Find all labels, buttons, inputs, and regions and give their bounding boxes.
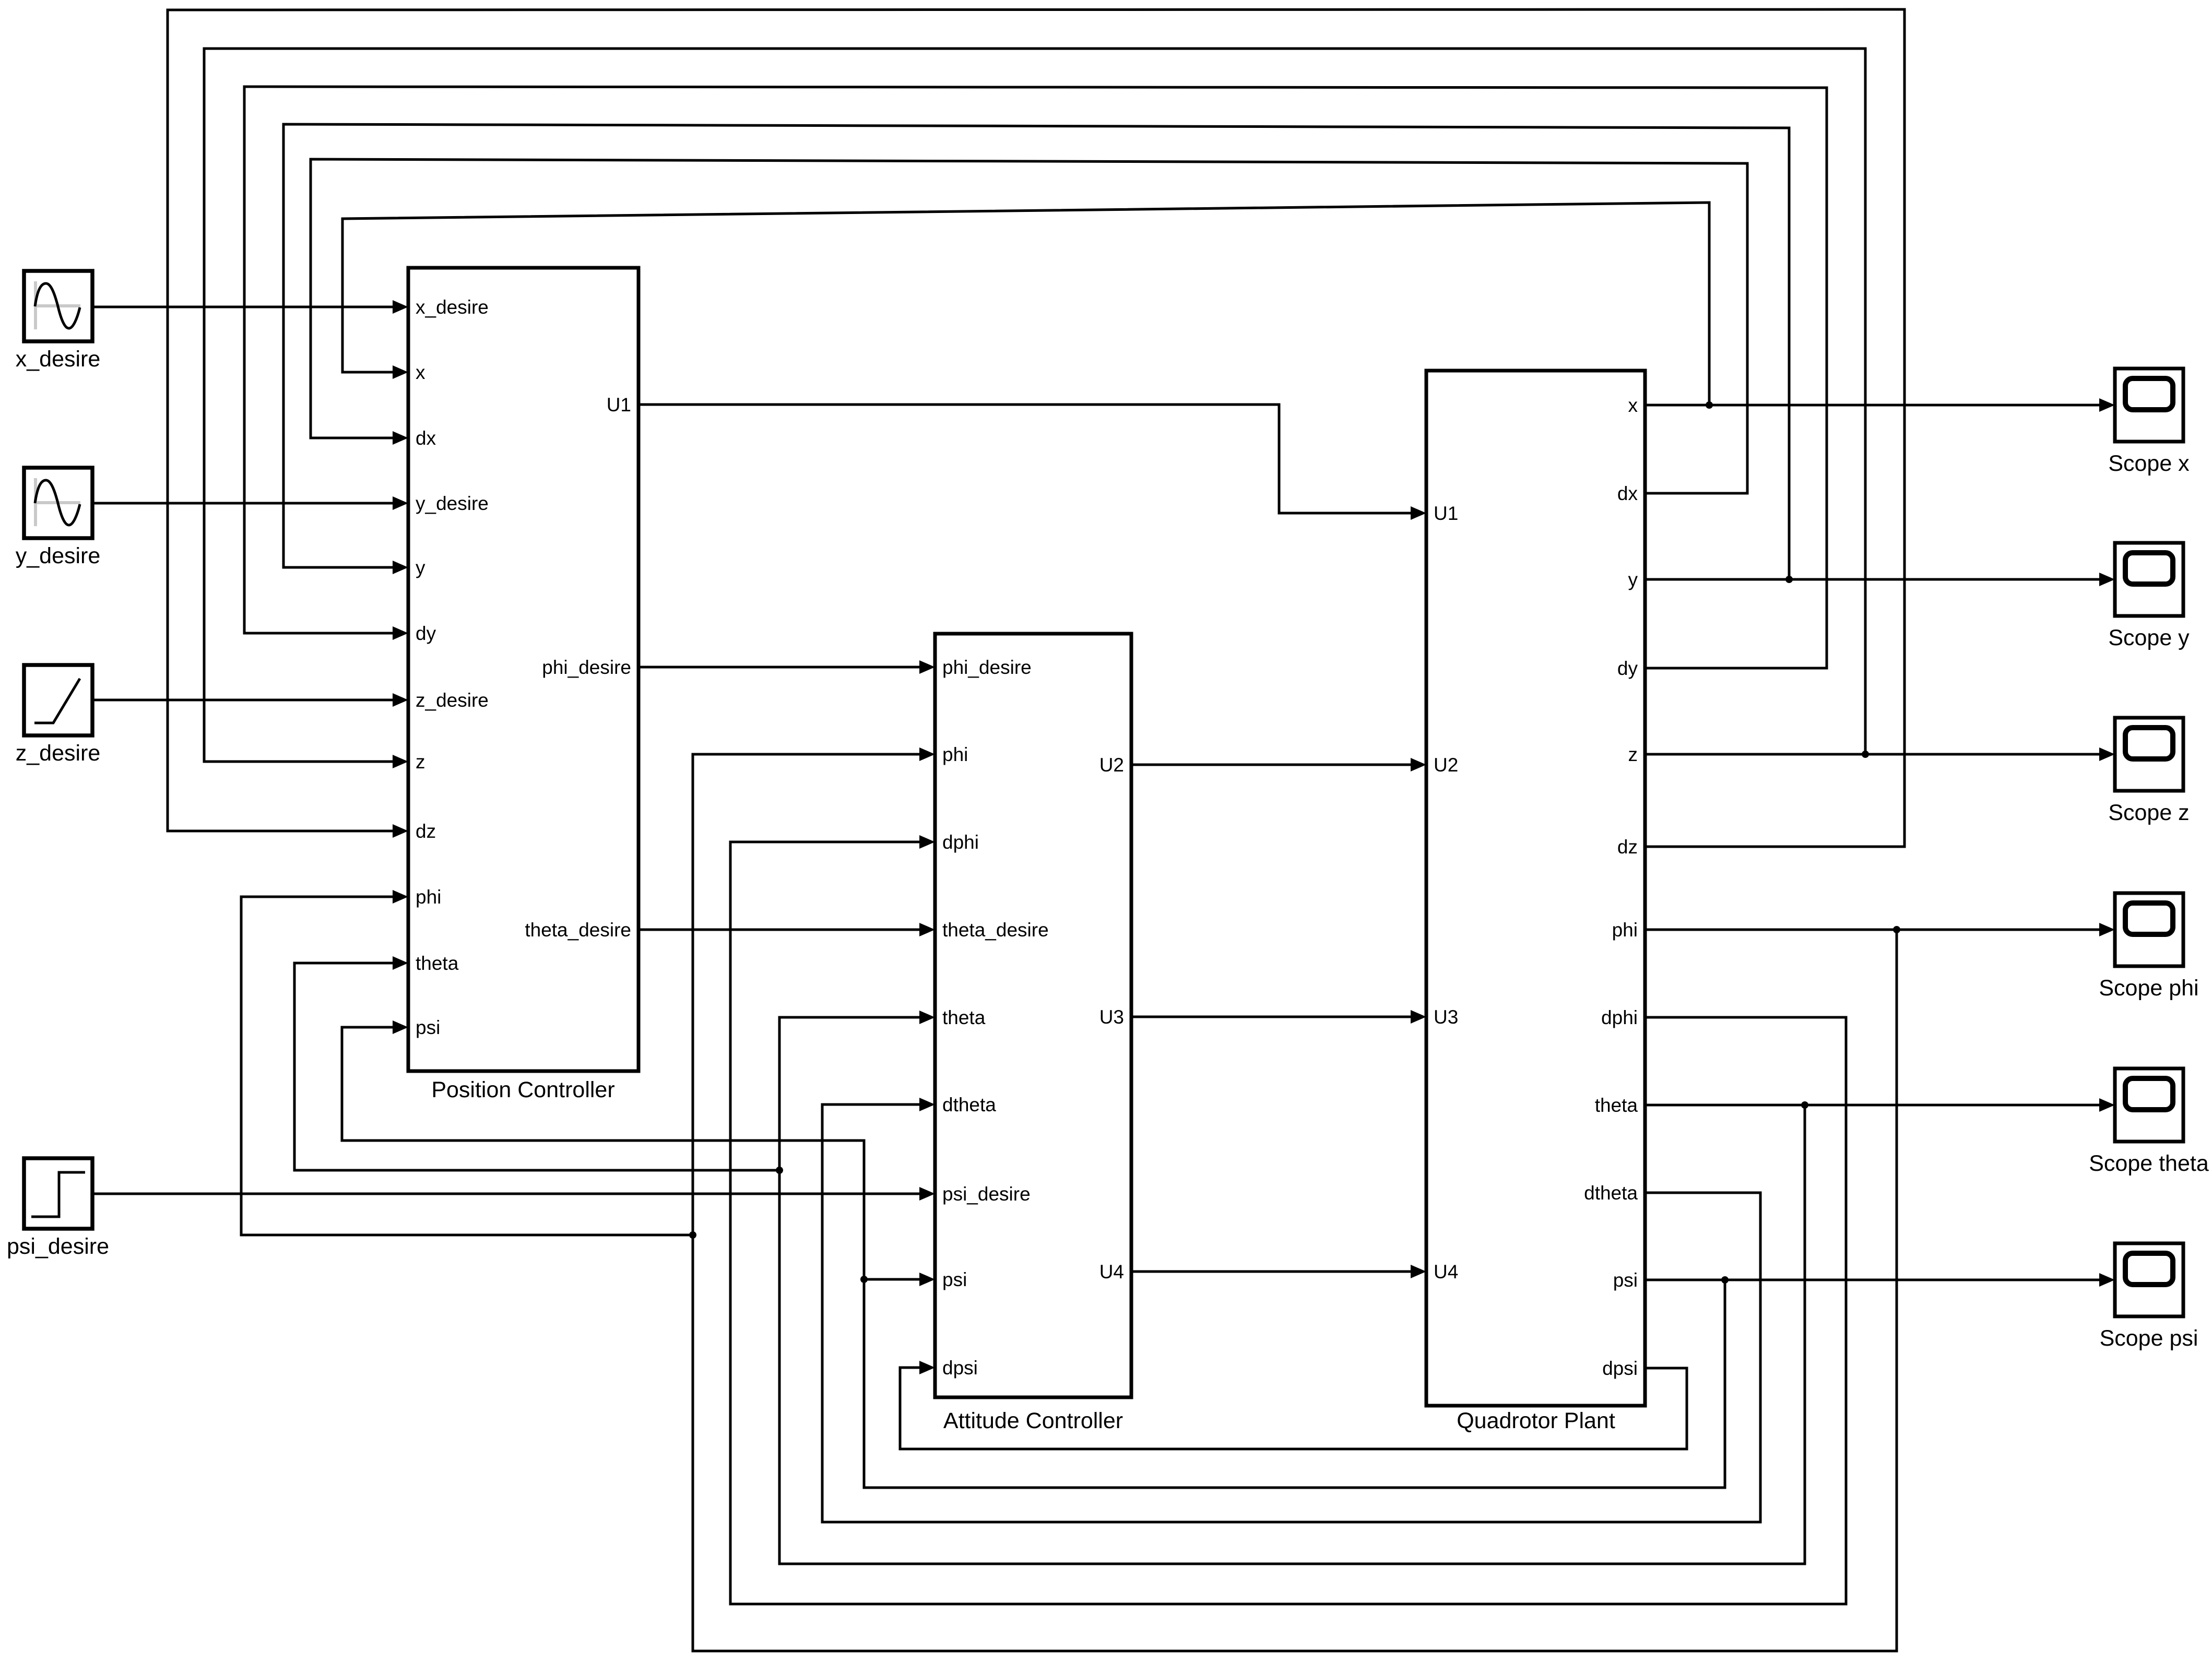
- svg-text:psi: psi: [942, 1269, 967, 1290]
- block Attitude Controller: [935, 634, 1131, 1397]
- source block psi_desire (step): [24, 1158, 92, 1229]
- svg-text:y_desire: y_desire: [16, 543, 101, 568]
- svg-text:theta: theta: [942, 1007, 986, 1028]
- svg-text:psi: psi: [1613, 1269, 1638, 1291]
- svg-text:Scope y: Scope y: [2108, 625, 2190, 650]
- scope block Scope psi: [2115, 1243, 2183, 1316]
- wire U4 Attitude Controller to Quadrotor Plant: [1131, 1265, 1426, 1278]
- wire psi feedback around bottom to Position Controller psi input: [342, 1020, 1725, 1488]
- svg-text:dy: dy: [416, 623, 436, 644]
- svg-text:Scope phi: Scope phi: [2099, 976, 2198, 1001]
- wire dy feedback over top to Position Controller dy input: [244, 87, 1827, 668]
- wire y output to Scope y: [1645, 573, 2115, 586]
- svg-text:dx: dx: [416, 427, 436, 449]
- svg-text:Quadrotor Plant: Quadrotor Plant: [1457, 1408, 1615, 1433]
- svg-text:psi_desire: psi_desire: [942, 1183, 1031, 1205]
- svg-text:Scope psi: Scope psi: [2100, 1326, 2198, 1351]
- svg-text:y: y: [416, 557, 425, 578]
- wire dpsi feedback to Attitude Controller dpsi input: [900, 1361, 1687, 1449]
- svg-text:dphi: dphi: [1601, 1007, 1638, 1028]
- svg-text:z_desire: z_desire: [416, 690, 489, 711]
- junction psi feedback branch: [860, 1276, 868, 1283]
- svg-text:phi: phi: [416, 886, 441, 908]
- wire U2 Attitude Controller to Quadrotor Plant: [1131, 758, 1426, 771]
- svg-text:theta: theta: [416, 953, 459, 974]
- svg-text:U3: U3: [1434, 1006, 1458, 1028]
- wire theta_desire Position Controller to Attitude Controller: [638, 923, 935, 936]
- svg-text:Scope x: Scope x: [2108, 451, 2190, 476]
- junction phi output / scope and feedback: [1893, 926, 1900, 933]
- svg-text:x_desire: x_desire: [416, 296, 489, 318]
- wire x_desire source to Position Controller x_desire input: [92, 300, 408, 314]
- svg-text:dz: dz: [1617, 836, 1638, 858]
- svg-text:y_desire: y_desire: [416, 493, 489, 514]
- svg-text:U1: U1: [607, 394, 631, 415]
- svg-text:x: x: [416, 362, 425, 383]
- wire dphi feedback around bottom to Attitude Controller dphi input: [730, 835, 1846, 1604]
- svg-text:U3: U3: [1099, 1006, 1124, 1028]
- svg-text:dtheta: dtheta: [942, 1094, 996, 1115]
- svg-text:dtheta: dtheta: [1584, 1182, 1638, 1204]
- block Position Controller: [408, 268, 638, 1071]
- svg-text:Scope theta: Scope theta: [2089, 1151, 2209, 1176]
- wire psi output to Scope psi: [1645, 1273, 2115, 1287]
- wire psi branch to Attitude Controller psi input: [864, 1273, 935, 1286]
- wire theta feedback around bottom to Attitude Controller theta input: [779, 1011, 1805, 1564]
- svg-text:dphi: dphi: [942, 831, 979, 853]
- svg-text:x: x: [1628, 395, 1638, 416]
- scope block Scope y: [2115, 543, 2183, 616]
- svg-text:dpsi: dpsi: [942, 1357, 978, 1379]
- svg-text:phi_desire: phi_desire: [542, 657, 631, 678]
- wire dz feedback over top to Position Controller dz input: [168, 9, 1905, 847]
- svg-text:Scope z: Scope z: [2108, 800, 2189, 825]
- svg-text:theta_desire: theta_desire: [942, 919, 1049, 941]
- scope block Scope phi: [2115, 893, 2183, 966]
- svg-text:phi_desire: phi_desire: [942, 657, 1032, 678]
- wire phi_desire Position Controller to Attitude Controller: [638, 660, 935, 674]
- wire x feedback over top to Position Controller x input: [342, 203, 1709, 405]
- wire z feedback over top to Position Controller z input: [204, 49, 1865, 768]
- scope block Scope theta: [2115, 1068, 2183, 1142]
- junction z output / scope and feedback: [1862, 751, 1869, 758]
- svg-text:x_desire: x_desire: [16, 347, 101, 372]
- wire theta branch to Position Controller theta input: [294, 956, 779, 1170]
- svg-text:z: z: [1628, 744, 1638, 765]
- wire z output to Scope z: [1645, 747, 2115, 761]
- svg-text:psi: psi: [416, 1017, 440, 1038]
- source block z_desire (ramp): [24, 665, 92, 735]
- wire dtheta feedback around bottom to Attitude Controller dtheta input: [822, 1098, 1760, 1522]
- svg-text:y: y: [1628, 569, 1638, 590]
- junction x output / scope and feedback: [1706, 401, 1713, 409]
- wire y_desire source to Position Controller y_desire input: [92, 496, 408, 510]
- svg-text:theta_desire: theta_desire: [525, 919, 631, 941]
- svg-text:U4: U4: [1099, 1261, 1124, 1282]
- block Quadrotor Plant: [1426, 371, 1645, 1406]
- svg-text:phi: phi: [1612, 919, 1638, 941]
- svg-text:U2: U2: [1434, 754, 1458, 776]
- svg-text:Position Controller: Position Controller: [431, 1077, 614, 1102]
- source block x_desire (sine wave): [24, 271, 92, 341]
- svg-text:z: z: [416, 751, 425, 773]
- svg-text:U4: U4: [1434, 1261, 1458, 1282]
- wire psi_desire source to Attitude Controller psi_desire input: [92, 1187, 935, 1201]
- junction theta output / scope and feedback: [1801, 1101, 1808, 1109]
- svg-text:U1: U1: [1434, 503, 1458, 524]
- junction theta feedback branch: [776, 1167, 783, 1174]
- wire dx feedback over top to Position Controller dx input: [311, 159, 1747, 493]
- junction psi output / scope and feedback: [1721, 1276, 1729, 1284]
- wire x output to Scope x: [1645, 398, 2115, 412]
- wire phi feedback around bottom to Attitude Controller phi input: [693, 747, 1897, 1651]
- svg-text:U2: U2: [1099, 754, 1124, 776]
- scope block Scope z: [2115, 718, 2183, 791]
- svg-text:Attitude Controller: Attitude Controller: [943, 1408, 1123, 1433]
- svg-text:theta: theta: [1595, 1095, 1638, 1116]
- svg-text:dx: dx: [1617, 483, 1638, 504]
- junction phi feedback branch: [689, 1231, 696, 1239]
- wire phi output to Scope phi: [1645, 923, 2115, 936]
- wire U1 Position Controller to Quadrotor Plant: [638, 405, 1426, 520]
- scope block Scope x: [2115, 369, 2183, 442]
- wire theta output to Scope theta: [1645, 1098, 2115, 1112]
- wire phi branch to Position Controller phi input: [241, 890, 693, 1235]
- wire z_desire source to Position Controller z_desire input: [92, 693, 408, 707]
- wire y feedback over top to Position Controller y input: [283, 124, 1789, 579]
- svg-text:psi_desire: psi_desire: [7, 1234, 109, 1259]
- wire U3 Attitude Controller to Quadrotor Plant: [1131, 1010, 1426, 1024]
- junction y output / scope and feedback: [1785, 576, 1793, 583]
- svg-text:dz: dz: [416, 821, 436, 842]
- svg-text:dpsi: dpsi: [1602, 1358, 1638, 1379]
- svg-text:phi: phi: [942, 744, 968, 765]
- source block y_desire (sine wave): [24, 468, 92, 538]
- svg-text:dy: dy: [1617, 658, 1638, 679]
- svg-text:z_desire: z_desire: [16, 741, 101, 766]
